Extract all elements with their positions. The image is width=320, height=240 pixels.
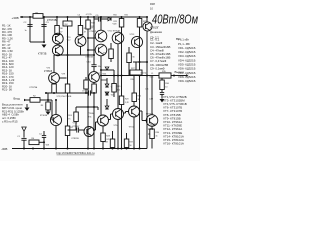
svg-text:1н: 1н xyxy=(25,30,27,32)
wire xyxy=(126,133,128,139)
svg-text:VD4: VD4 xyxy=(103,74,107,76)
svg-text:ПЛ4: ПЛ4 xyxy=(113,14,116,16)
wire xyxy=(26,104,28,107)
resistor R3 xyxy=(46,102,51,110)
svg-text:39н: 39н xyxy=(98,66,101,68)
node xyxy=(55,99,57,101)
resistor R16b xyxy=(65,126,70,136)
svg-text:VD9- КД521Б: VD9- КД521Б xyxy=(178,79,196,83)
wire xyxy=(53,82,55,85)
wire xyxy=(23,131,25,137)
wire xyxy=(161,90,163,93)
transistor VT16 xyxy=(143,22,152,31)
transistor VT14 xyxy=(98,115,109,126)
transistor VT17 xyxy=(129,106,140,117)
svg-text:Динамики: Динамики xyxy=(150,30,163,34)
resistor R13 xyxy=(86,20,91,29)
transistor VT9 xyxy=(95,44,107,56)
svg-text:R34: R34 xyxy=(131,79,134,81)
wire xyxy=(102,142,104,149)
wire xyxy=(56,17,58,26)
wire xyxy=(67,136,69,149)
transistor VT8 xyxy=(95,30,107,42)
link wire T12-T14 xyxy=(94,129,96,131)
resistor R4 xyxy=(29,140,39,145)
resistor R33 xyxy=(110,139,115,148)
wire xyxy=(80,17,82,26)
parts list: resistors (left column) xyxy=(2,24,15,92)
diode VD4 xyxy=(105,67,109,70)
svg-text:40Вт/8Ом: 40Вт/8Ом xyxy=(152,13,198,27)
wire xyxy=(121,17,123,19)
wire xyxy=(76,106,98,108)
diode VD6 xyxy=(105,92,109,95)
wire xyxy=(117,120,119,149)
svg-text:3-: 3- xyxy=(148,132,150,136)
wire xyxy=(93,19,95,55)
svg-text:R6: R6 xyxy=(60,28,62,30)
wire xyxy=(43,131,45,135)
wire xyxy=(43,17,45,42)
svg-text:R28: R28 xyxy=(106,136,109,138)
wire xyxy=(100,17,102,30)
wire xyxy=(80,46,82,55)
ground xyxy=(42,45,47,48)
wire xyxy=(51,100,53,120)
resistor R29 xyxy=(124,139,129,148)
svg-text:КТ361В: КТ361В xyxy=(44,71,53,73)
wire xyxy=(43,137,45,148)
svg-text:R24: R24 xyxy=(68,115,71,117)
wire xyxy=(101,79,107,81)
transistor VT2 xyxy=(75,36,86,47)
transistor VT10 xyxy=(112,32,124,44)
capacitor C12 xyxy=(160,93,164,95)
wire xyxy=(75,107,77,112)
wire xyxy=(110,43,112,49)
wire xyxy=(47,93,49,102)
ground xyxy=(25,108,30,111)
parts list: capacitors (right column 1) xyxy=(150,38,170,71)
node xyxy=(173,75,175,77)
resistor R1 (series in +rail) xyxy=(33,14,43,19)
capacitor C9 xyxy=(89,90,91,95)
resistor R28 xyxy=(101,133,106,142)
resistor R27 0.5 Ohm xyxy=(130,70,142,75)
wire xyxy=(53,55,55,73)
node xyxy=(113,75,115,77)
link wire T14-T15 xyxy=(109,119,111,121)
wire xyxy=(113,70,115,76)
wire xyxy=(97,107,99,110)
power rail +30V xyxy=(20,16,147,18)
wire xyxy=(133,117,135,149)
svg-text:КТ815В: КТ815В xyxy=(86,57,94,59)
svg-text:VT10 КТ961В: VT10 КТ961В xyxy=(108,31,121,33)
resistor R18 xyxy=(92,84,97,93)
capacitor C3 xyxy=(41,25,46,27)
svg-text:R21- 56: R21- 56 xyxy=(2,88,12,92)
svg-text:R38: R38 xyxy=(150,2,155,6)
wire xyxy=(93,17,95,19)
svg-text:R36: R36 xyxy=(165,83,168,85)
svg-text:КТ815В: КТ815В xyxy=(72,138,80,140)
parts list: diodes (right column 2) xyxy=(178,38,196,84)
wire xyxy=(39,141,44,143)
svg-text:КТ361В: КТ361В xyxy=(40,115,48,117)
resistor R36 xyxy=(160,80,165,90)
wire xyxy=(106,78,108,84)
resistor R23 xyxy=(119,96,124,105)
svg-text:R32: R32 xyxy=(138,96,141,98)
svg-text:-30В: -30В xyxy=(1,147,7,151)
wire xyxy=(87,17,89,20)
svg-text:L1: L1 xyxy=(151,73,153,75)
svg-text:(ТЛ): (ТЛ) xyxy=(88,116,92,118)
svg-text:R23: R23 xyxy=(125,99,128,101)
resistor R17 xyxy=(109,49,114,59)
capacitor C1 xyxy=(21,138,26,140)
wire xyxy=(171,75,186,77)
svg-text:VT2,VT4-КТ961В: VT2,VT4-КТ961В xyxy=(57,96,73,98)
svg-text:47: 47 xyxy=(60,31,62,33)
svg-text:R26: R26 xyxy=(125,14,128,16)
svg-text:+30В: +30В xyxy=(12,16,19,20)
base stub xyxy=(59,77,66,79)
output wire xyxy=(147,75,159,77)
wire xyxy=(146,17,148,22)
transistor VT11 xyxy=(89,72,100,83)
node xyxy=(67,54,69,56)
transistor VT3 xyxy=(52,45,63,56)
node xyxy=(43,41,45,43)
svg-text:R30: R30 xyxy=(156,132,159,134)
node xyxy=(100,75,102,77)
transistor VT1 xyxy=(52,33,63,44)
link wire T15-T17 xyxy=(124,112,126,114)
node xyxy=(43,141,45,143)
wire xyxy=(151,139,153,149)
resistor R6 xyxy=(55,26,60,35)
wire xyxy=(93,82,95,84)
feedback wire xyxy=(46,92,88,94)
wire xyxy=(67,17,69,21)
transistor VT5 xyxy=(49,73,60,84)
wire xyxy=(161,78,163,80)
node xyxy=(45,92,47,94)
input terminal arrow xyxy=(24,99,26,102)
wire xyxy=(55,100,57,114)
svg-text:КТ973Б: КТ973Б xyxy=(38,53,47,56)
transistor VT15 xyxy=(113,109,124,120)
ground arrow xyxy=(22,127,26,131)
wire xyxy=(101,75,147,77)
svg-text:3мГн: 3мГн xyxy=(149,77,153,79)
wire xyxy=(139,17,141,19)
annotation block (input notes) xyxy=(2,103,25,124)
capacitor C5 xyxy=(98,16,100,21)
wire x=66.5 xyxy=(66,25,68,27)
svg-text:470: 470 xyxy=(103,53,106,55)
wire xyxy=(55,126,57,149)
wire xyxy=(90,92,94,94)
svg-text:R3: R3 xyxy=(41,105,43,107)
resistor R22 xyxy=(127,53,132,63)
parts list: transistors (right column 3) xyxy=(163,95,187,146)
resistor R25 xyxy=(137,19,142,28)
resistor R32 xyxy=(132,93,137,102)
svg-text:75: 75 xyxy=(68,118,70,120)
svg-text:VT8: VT8 xyxy=(91,28,94,30)
svg-text:R21: R21 xyxy=(114,21,117,23)
base stub xyxy=(88,49,95,51)
resistor R19b xyxy=(84,80,89,89)
resistor R5 xyxy=(63,21,72,26)
node xyxy=(93,129,95,131)
node xyxy=(87,37,89,39)
wire xyxy=(133,61,147,63)
link wire T17-T18 xyxy=(140,110,143,112)
wire xyxy=(75,122,77,131)
wire xyxy=(67,55,69,84)
capacitor C10 xyxy=(91,65,96,67)
wire xyxy=(102,126,104,133)
wire node line xyxy=(54,54,94,56)
wire xyxy=(161,94,163,98)
diode VD3 xyxy=(108,17,111,21)
resistor R24 xyxy=(74,112,79,122)
resistor R15 xyxy=(65,84,70,93)
wire xyxy=(40,99,52,101)
wire xyxy=(128,47,130,53)
input wire xyxy=(24,99,30,101)
wire xyxy=(85,77,87,80)
transistor VT18 xyxy=(146,115,158,127)
resistor R14 xyxy=(52,84,57,93)
svg-text:КТ973Б: КТ973Б xyxy=(30,87,38,89)
wire xyxy=(93,93,95,149)
diode VD7 xyxy=(105,106,109,109)
wire xyxy=(68,129,77,131)
inductor L1 / resistor R35 xyxy=(159,73,171,78)
svg-text:150: 150 xyxy=(117,89,120,91)
svg-text:Вход: Вход xyxy=(14,97,21,101)
svg-text:с R5 по R15: с R5 по R15 xyxy=(2,119,18,123)
diode VD5 xyxy=(105,84,109,87)
wire xyxy=(23,140,25,148)
power rail -30V xyxy=(12,148,147,150)
svg-text:+П,ГУБ: +П,ГУБ xyxy=(86,14,93,16)
wire xyxy=(29,17,31,42)
svg-text:56: 56 xyxy=(130,145,132,147)
svg-text:R33: R33 xyxy=(104,142,107,144)
node xyxy=(139,61,141,63)
wire xyxy=(133,76,135,94)
resistor R19 xyxy=(112,84,117,93)
svg-text:С9- 0,1мкФ: С9- 0,1мкФ xyxy=(150,66,165,70)
resistor R21 xyxy=(119,19,124,28)
svg-text:КТ973Б: КТ973Б xyxy=(47,18,57,22)
transistor VT12 xyxy=(84,127,94,137)
wire xyxy=(151,126,153,129)
ground xyxy=(46,112,51,115)
ground xyxy=(160,99,165,102)
node xyxy=(87,106,89,108)
node xyxy=(100,69,102,71)
resistor R2 input xyxy=(30,98,40,103)
wire xyxy=(67,93,69,126)
svg-text:VD8: VD8 xyxy=(46,145,50,147)
svg-text:КТ815Г: КТ815Г xyxy=(150,25,160,29)
resistor R11 xyxy=(78,26,83,35)
wire xyxy=(47,110,49,111)
svg-text:АО2: АО2 xyxy=(148,127,154,131)
junctions bottom rail xyxy=(23,148,25,150)
wire xyxy=(67,26,69,55)
url underline xyxy=(57,154,95,156)
wire xyxy=(79,129,84,131)
svg-text:VT16- КТ8101А: VT16- КТ8101А xyxy=(163,142,184,146)
svg-text:47: 47 xyxy=(84,31,86,33)
svg-text:VT50Б: VT50Б xyxy=(88,113,95,115)
transistor VT4 xyxy=(50,114,61,125)
svg-text:3н: 3н xyxy=(156,135,158,137)
wire xyxy=(93,55,95,65)
wire xyxy=(113,76,115,84)
output terminal xyxy=(186,74,188,76)
capacitor C8 xyxy=(77,127,79,132)
wire xyxy=(101,69,114,71)
resistor R30 xyxy=(150,129,155,139)
wire xyxy=(100,18,108,20)
svg-text:R19: R19 xyxy=(117,86,120,88)
wire xyxy=(100,56,102,115)
capacitor C4 xyxy=(42,136,46,138)
wire xyxy=(30,41,44,43)
wire xyxy=(117,44,119,109)
svg-text:56: 56 xyxy=(133,57,135,59)
base stub xyxy=(88,37,95,39)
svg-text:КТ8102: КТ8102 xyxy=(146,114,154,116)
node xyxy=(93,92,95,94)
svg-text:С4: С4 xyxy=(78,14,80,16)
wire xyxy=(135,62,137,70)
svg-text:0,5Ом: 0,5Ом xyxy=(141,73,147,75)
wire xyxy=(151,76,153,115)
wire xyxy=(106,92,108,95)
wire xyxy=(121,105,123,149)
capacitor C2 xyxy=(27,25,32,27)
node xyxy=(47,99,49,101)
svg-text:952: 952 xyxy=(65,24,68,26)
junctions top rail xyxy=(21,16,23,18)
svg-text:КТ818Г: КТ818Г xyxy=(148,123,157,127)
svg-text:10: 10 xyxy=(165,86,167,88)
svg-text:http://СХЕМОТЕХНИКА.3dn.ru: http://СХЕМОТЕХНИКА.3dn.ru xyxy=(57,151,95,155)
wire xyxy=(112,131,114,139)
transistor VT13 xyxy=(131,36,142,47)
svg-text:R29: R29 xyxy=(130,142,133,144)
